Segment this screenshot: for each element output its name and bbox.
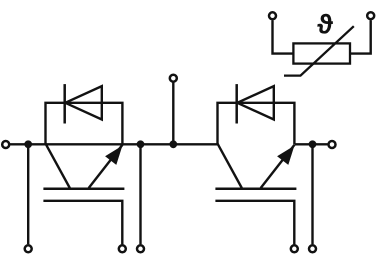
terminal collector aux (25, 245, 32, 252)
wire main bus: terminal 1 to TOP collector (10, 143, 218, 145)
diode D1 cathode bar (63, 84, 66, 123)
terminal thermistor right (367, 12, 374, 19)
wire thermistor left lead (273, 20, 294, 53)
wire: T1 emitter aux lead down (139, 144, 141, 244)
wire: phase output up (172, 82, 174, 144)
terminal thermistor left (269, 12, 276, 19)
node: T1 emitter junction (137, 140, 145, 148)
wire diode loop of D1 (46, 103, 123, 145)
diode D1 triangle (65, 86, 102, 119)
wire diode loop of D2 (218, 103, 295, 145)
terminal G2 (gate) (291, 245, 298, 252)
node: T2 emitter junction (309, 140, 317, 148)
node: phase output junction (169, 140, 177, 148)
transistor T2 channel bar (215, 187, 296, 190)
terminal 3 (phase output) (170, 75, 177, 82)
transistor T2 emitter arrowhead (277, 146, 294, 165)
wire: BOT emitter to terminal 2 (294, 143, 328, 145)
terminal emitter aux T1 (137, 245, 144, 252)
label theta (temperature) (317, 14, 332, 34)
transistor T2 gate electrode and gate lead (215, 201, 294, 245)
diode D2 cathode bar (235, 84, 238, 123)
wire thermistor right lead (350, 20, 371, 53)
terminal emitter aux T2 (309, 245, 316, 252)
transistor T1 emitter line (89, 145, 123, 188)
transistor T1 channel bar (43, 187, 124, 190)
transistor T2 collector line (218, 144, 242, 188)
terminal 1 (collector of T1) (2, 141, 9, 148)
terminal 2 (emitter of T2) (329, 141, 336, 148)
terminal G1 (gate) (119, 245, 126, 252)
wire: collector aux lead down (27, 144, 29, 244)
transistor T1 collector line (46, 144, 70, 188)
thermistor R body (293, 43, 350, 63)
thermistor diagonal strike (NTC) (284, 26, 354, 75)
node: T1 collector junction (24, 140, 32, 148)
transistor T1 emitter arrowhead (105, 146, 122, 165)
diode D2 triangle (237, 86, 274, 119)
transistor T2 emitter line (261, 145, 295, 188)
wire: T2 emitter aux lead down (311, 144, 313, 244)
transistor T1 gate electrode and gate lead (43, 201, 122, 245)
